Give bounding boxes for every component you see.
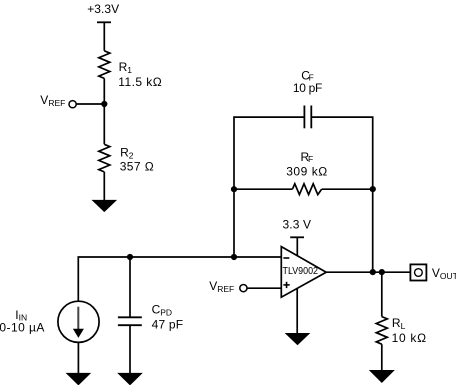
svg-text:TLV9002: TLV9002 <box>283 266 319 277</box>
wire RL to ground <box>381 344 383 370</box>
junction feedback/output <box>370 269 376 275</box>
resistor R2 <box>99 144 110 172</box>
ground (CPD) <box>117 373 143 385</box>
wire inverting input bus <box>78 257 281 302</box>
resistor RF <box>292 184 321 195</box>
svg-text:0-10 µA: 0-10 µA <box>0 321 44 335</box>
svg-text:10 pF: 10 pF <box>293 81 323 95</box>
capacitor CF plates <box>303 106 305 129</box>
ground (op-amp) <box>285 333 311 345</box>
wire supply bar to R1 <box>103 22 105 51</box>
wire CF left <box>234 117 304 257</box>
wire R1 to node VREF <box>103 78 105 144</box>
junction feedback tap <box>231 254 237 260</box>
ground (divider) <box>92 200 118 212</box>
wire RF left <box>234 188 292 190</box>
wire R2 to ground <box>103 172 105 201</box>
op-amp supply terminal bar <box>290 236 304 238</box>
resistor R1 <box>99 51 110 79</box>
svg-text:10 kΩ: 10 kΩ <box>392 331 427 345</box>
junction RF left <box>231 186 237 192</box>
svg-text:309 kΩ: 309 kΩ <box>286 165 327 179</box>
svg-text:11.5 kΩ: 11.5 kΩ <box>118 75 162 89</box>
junction RL/output <box>379 269 385 275</box>
junction CPD tap <box>127 254 133 260</box>
wire bus to CPD <box>129 257 131 317</box>
svg-text:357 Ω: 357 Ω <box>120 160 154 174</box>
wire CF right <box>312 117 373 272</box>
wire CPD to ground <box>129 325 131 373</box>
terminal VREF circle at + input <box>240 285 247 292</box>
wire supply bar to op-amp <box>296 237 298 256</box>
+3.3V supply terminal bar <box>97 21 111 23</box>
wire VREF terminal to node <box>76 103 104 105</box>
op-amp U1 TLV9002 <box>281 247 326 298</box>
wire output <box>326 271 410 273</box>
op-amp minus pin mark <box>283 257 289 259</box>
wire RF right <box>322 188 373 190</box>
current source IIN <box>58 301 99 342</box>
op-amp plus pin mark <box>283 284 289 286</box>
terminal VOUT box <box>410 264 426 280</box>
junction RF right <box>370 186 376 192</box>
wire current source to ground <box>77 342 79 373</box>
capacitor CPD plates <box>118 316 142 318</box>
svg-text:47 pF: 47 pF <box>152 317 184 331</box>
node VREF junction dot <box>101 101 107 107</box>
resistor RL <box>376 317 387 345</box>
wire VREF to + input <box>247 287 281 289</box>
svg-text:+3.3V: +3.3V <box>87 2 119 16</box>
ground (RL) <box>369 370 395 383</box>
ground (IIN) <box>66 373 92 385</box>
svg-text:3.3 V: 3.3 V <box>283 218 312 232</box>
wire output to RL <box>381 272 383 316</box>
terminal VREF circle <box>69 101 76 108</box>
wire op-amp to ground <box>296 288 298 333</box>
